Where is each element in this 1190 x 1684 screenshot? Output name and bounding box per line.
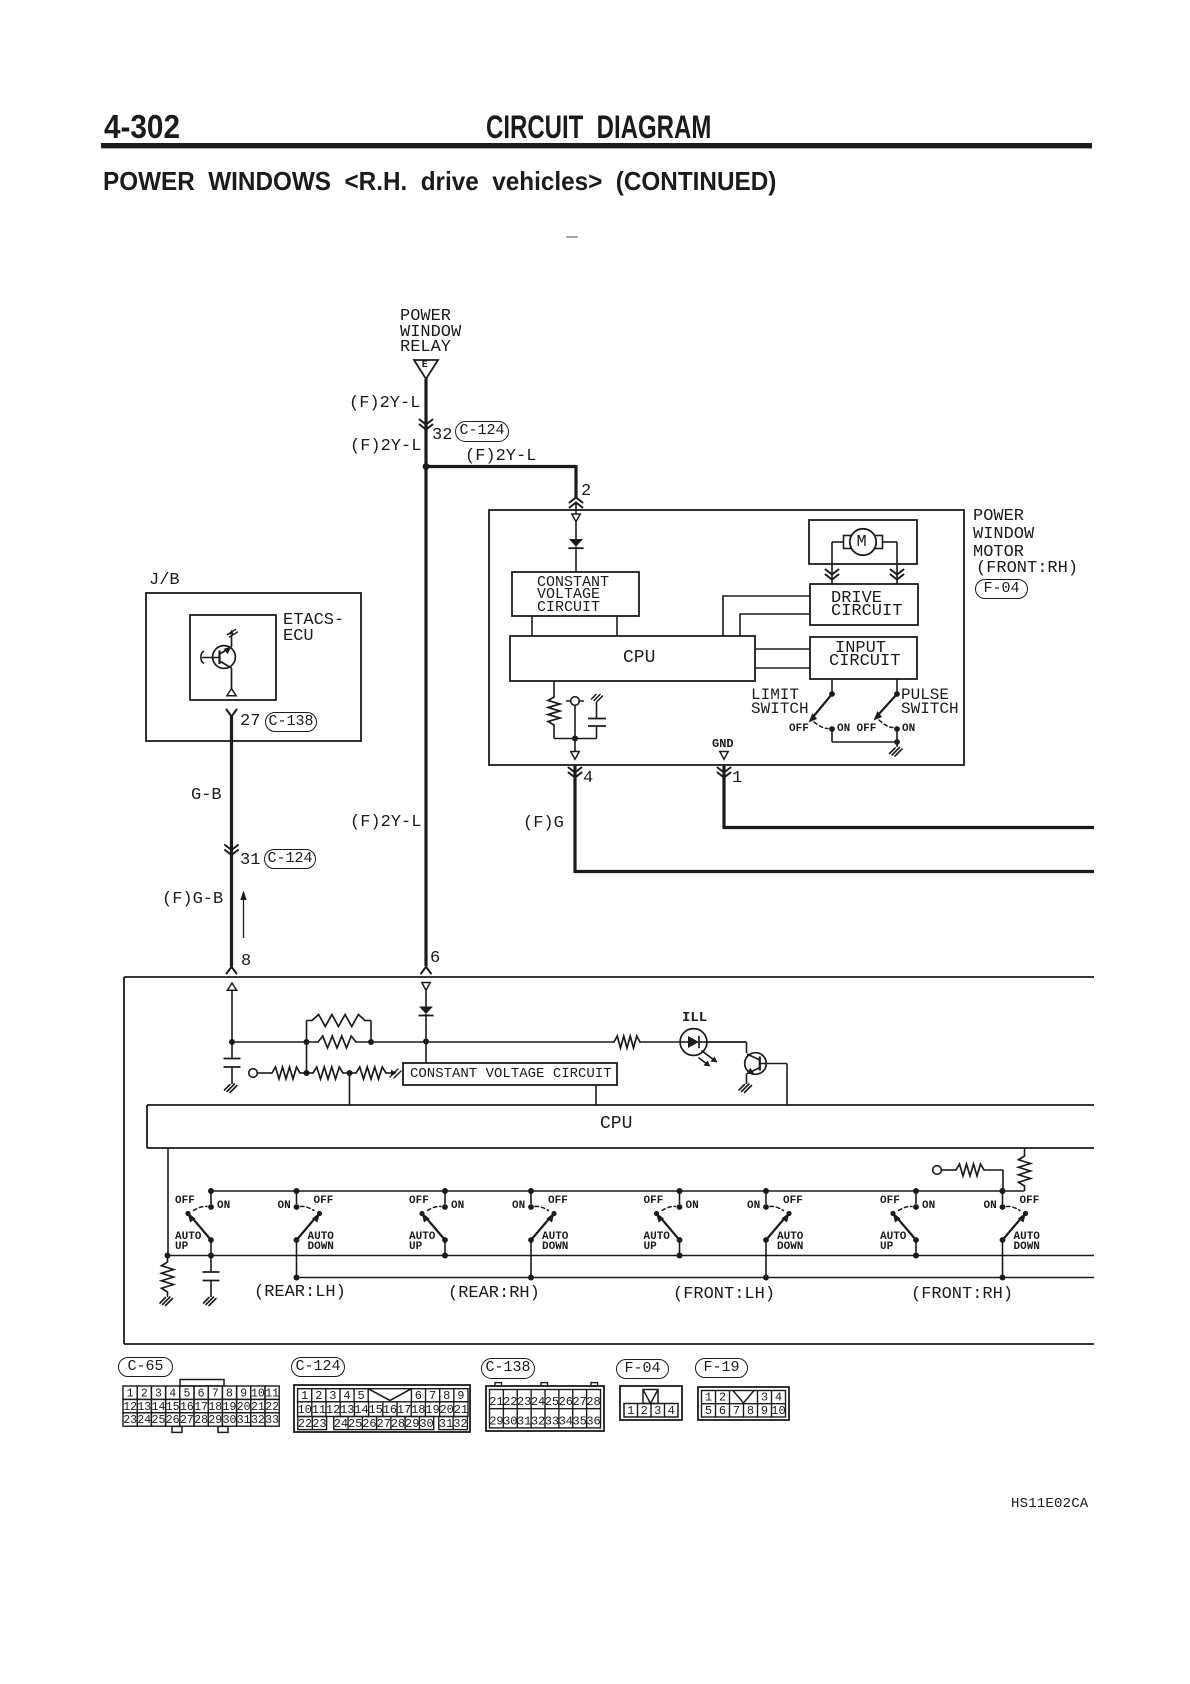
- svg-text:2: 2: [719, 1391, 726, 1405]
- svg-text:16: 16: [180, 1401, 194, 1414]
- svg-text:25: 25: [348, 1417, 362, 1431]
- svg-text:18: 18: [208, 1401, 222, 1414]
- svg-text:2: 2: [315, 1389, 322, 1403]
- svg-text:34: 34: [559, 1414, 573, 1428]
- svg-text:1: 1: [705, 1391, 712, 1405]
- svg-text:17: 17: [194, 1401, 208, 1414]
- svg-text:29: 29: [489, 1414, 503, 1428]
- svg-text:14: 14: [354, 1403, 368, 1417]
- svg-text:16: 16: [383, 1403, 397, 1417]
- svg-text:36: 36: [586, 1414, 600, 1428]
- svg-text:3: 3: [155, 1387, 162, 1400]
- svg-text:1: 1: [627, 1404, 634, 1418]
- svg-text:30: 30: [419, 1417, 433, 1431]
- svg-text:21: 21: [251, 1401, 265, 1414]
- svg-text:8: 8: [443, 1389, 450, 1403]
- svg-text:2: 2: [641, 1404, 648, 1418]
- svg-text:10: 10: [771, 1404, 785, 1418]
- svg-text:25: 25: [545, 1395, 559, 1409]
- svg-text:22: 22: [298, 1417, 312, 1431]
- svg-text:14: 14: [152, 1401, 166, 1414]
- svg-text:4: 4: [343, 1389, 350, 1403]
- svg-text:15: 15: [368, 1403, 382, 1417]
- svg-text:27: 27: [572, 1395, 586, 1409]
- svg-text:31: 31: [439, 1417, 453, 1431]
- svg-text:21: 21: [454, 1403, 468, 1417]
- svg-text:6: 6: [719, 1404, 726, 1418]
- svg-text:21: 21: [489, 1395, 503, 1409]
- svg-text:2: 2: [141, 1387, 148, 1400]
- svg-text:8: 8: [747, 1404, 754, 1418]
- svg-text:10: 10: [251, 1387, 265, 1400]
- svg-text:30: 30: [223, 1414, 237, 1427]
- svg-text:11: 11: [265, 1387, 279, 1400]
- svg-text:32: 32: [453, 1417, 467, 1431]
- svg-text:19: 19: [425, 1403, 439, 1417]
- svg-text:24: 24: [334, 1417, 348, 1431]
- svg-text:23: 23: [123, 1414, 137, 1427]
- svg-text:5: 5: [357, 1389, 364, 1403]
- svg-text:31: 31: [237, 1414, 251, 1427]
- svg-text:12: 12: [123, 1401, 137, 1414]
- svg-text:24: 24: [137, 1414, 151, 1427]
- svg-text:31: 31: [517, 1414, 531, 1428]
- svg-text:6: 6: [415, 1389, 422, 1403]
- svg-text:26: 26: [559, 1395, 573, 1409]
- svg-text:28: 28: [391, 1417, 405, 1431]
- svg-text:20: 20: [237, 1401, 251, 1414]
- svg-text:24: 24: [531, 1395, 545, 1409]
- svg-text:28: 28: [586, 1395, 600, 1409]
- svg-text:7: 7: [429, 1389, 436, 1403]
- svg-text:9: 9: [240, 1387, 247, 1400]
- svg-text:1: 1: [301, 1389, 308, 1403]
- svg-text:28: 28: [194, 1414, 208, 1427]
- svg-text:26: 26: [166, 1414, 180, 1427]
- svg-text:30: 30: [503, 1414, 517, 1428]
- svg-text:35: 35: [572, 1414, 586, 1428]
- svg-text:11: 11: [312, 1403, 326, 1417]
- svg-text:5: 5: [705, 1404, 712, 1418]
- svg-text:9: 9: [761, 1404, 768, 1418]
- svg-text:3: 3: [654, 1404, 661, 1418]
- svg-text:29: 29: [405, 1417, 419, 1431]
- svg-text:20: 20: [439, 1403, 453, 1417]
- svg-text:19: 19: [223, 1401, 237, 1414]
- svg-text:25: 25: [152, 1414, 166, 1427]
- svg-text:22: 22: [503, 1395, 517, 1409]
- svg-text:1: 1: [127, 1387, 134, 1400]
- svg-text:3: 3: [761, 1391, 768, 1405]
- svg-text:27: 27: [180, 1414, 194, 1427]
- svg-text:5: 5: [183, 1387, 190, 1400]
- svg-text:27: 27: [377, 1417, 391, 1431]
- svg-text:23: 23: [312, 1417, 326, 1431]
- svg-text:7: 7: [212, 1387, 219, 1400]
- svg-text:4: 4: [668, 1404, 675, 1418]
- svg-text:15: 15: [166, 1401, 180, 1414]
- svg-text:10: 10: [297, 1403, 311, 1417]
- svg-text:33: 33: [265, 1414, 279, 1427]
- svg-text:6: 6: [198, 1387, 205, 1400]
- svg-text:33: 33: [545, 1414, 559, 1428]
- svg-text:32: 32: [531, 1414, 545, 1428]
- svg-text:4: 4: [169, 1387, 176, 1400]
- svg-text:29: 29: [208, 1414, 222, 1427]
- svg-text:7: 7: [733, 1404, 740, 1418]
- svg-text:22: 22: [265, 1401, 279, 1414]
- svg-text:8: 8: [226, 1387, 233, 1400]
- svg-text:13: 13: [340, 1403, 354, 1417]
- svg-text:23: 23: [517, 1395, 531, 1409]
- svg-text:18: 18: [411, 1403, 425, 1417]
- svg-text:12: 12: [326, 1403, 340, 1417]
- svg-text:32: 32: [251, 1414, 265, 1427]
- svg-text:9: 9: [457, 1389, 464, 1403]
- svg-text:26: 26: [362, 1417, 376, 1431]
- svg-text:4: 4: [775, 1391, 782, 1405]
- svg-text:17: 17: [397, 1403, 411, 1417]
- svg-text:13: 13: [137, 1401, 151, 1414]
- svg-text:3: 3: [329, 1389, 336, 1403]
